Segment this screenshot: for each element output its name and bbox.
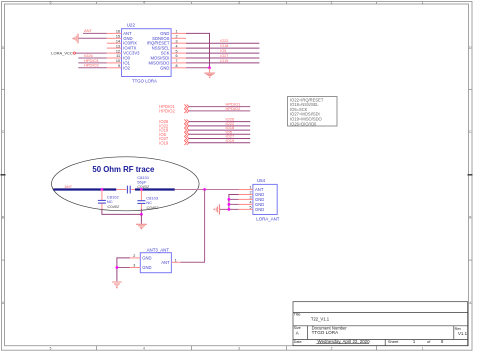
- svg-text:U22: U22: [127, 23, 136, 28]
- wire IO18: [189, 129, 250, 131]
- svg-text:ANT: ANT: [161, 260, 170, 265]
- svg-text:5: 5: [50, 1, 52, 5]
- svg-text:12: 12: [116, 49, 120, 53]
- svg-text:IO19: IO19: [220, 59, 228, 63]
- svg-text:3: 3: [238, 347, 240, 351]
- svg-text:50 Ohm RF trace: 50 Ohm RF trace: [92, 165, 155, 174]
- svg-text:IO19: IO19: [159, 140, 169, 145]
- capacitor C8102 NC (shunt): [98, 190, 120, 209]
- svg-text:8: 8: [176, 64, 178, 68]
- svg-text:Title: Title: [294, 312, 301, 316]
- svg-text:9: 9: [118, 64, 120, 68]
- svg-text:Sheet: Sheet: [388, 339, 399, 344]
- title block: [293, 302, 468, 346]
- note box: pin mapping table: [288, 97, 338, 127]
- svg-text:IO2: IO2: [123, 65, 130, 70]
- svg-text:T22_V1.1: T22_V1.1: [311, 317, 330, 322]
- svg-text:Wednesday, April 22, 2020: Wednesday, April 22, 2020: [318, 339, 371, 344]
- svg-text:14: 14: [116, 39, 120, 43]
- svg-text:V1.1: V1.1: [458, 331, 468, 336]
- wire HPDIO1: [189, 106, 250, 108]
- svg-text:7: 7: [176, 59, 178, 63]
- svg-text:4: 4: [176, 44, 178, 48]
- ground (below U22): [204, 68, 215, 78]
- junction (ANT3 gnd): [116, 266, 119, 269]
- svg-text:2: 2: [331, 347, 333, 351]
- svg-text:5: 5: [50, 347, 52, 351]
- svg-text:6: 6: [176, 54, 178, 58]
- svg-text:4: 4: [250, 200, 252, 204]
- svg-text:HPDIO2: HPDIO2: [226, 106, 242, 111]
- svg-text:B: B: [469, 216, 471, 220]
- svg-text:LORA_ANT: LORA_ANT: [256, 217, 279, 222]
- junction (U54 gnd bus pin4): [228, 203, 231, 206]
- wire IO22: [189, 125, 250, 127]
- junction (shunt cap ground): [140, 213, 143, 216]
- svg-text:5: 5: [250, 205, 252, 209]
- svg-text:A: A: [296, 330, 299, 335]
- IC U22 TTGO LORA: [107, 23, 186, 84]
- junction (antenna tee): [203, 188, 206, 191]
- wire U54 pin4 GND: [229, 203, 239, 205]
- wire U22 pin4 NSS/SEL: [186, 47, 259, 49]
- wire U22 pin3 IRQ/RESET: [186, 42, 259, 44]
- wire U22 pin16 ANT: [83, 32, 107, 34]
- svg-text:IO27: IO27: [220, 54, 228, 58]
- wire U22 pin8 GND: [186, 67, 210, 69]
- wire U22 pin11 IO0: [78, 57, 107, 59]
- svg-text:13: 13: [116, 44, 120, 48]
- wire U22 pin7 MISO/SDO: [186, 62, 259, 64]
- wire U54 pin5 GND to ground: [220, 208, 239, 210]
- wire IO27: [189, 138, 250, 140]
- svg-text:Date:: Date:: [294, 340, 303, 344]
- svg-text:4: 4: [143, 1, 145, 5]
- svg-text:2: 2: [331, 1, 333, 5]
- svg-text:C0402: C0402: [147, 205, 160, 210]
- svg-text:IO5: IO5: [220, 49, 226, 53]
- junction (trace / C8103): [140, 188, 143, 191]
- svg-text:IO18: IO18: [220, 44, 228, 48]
- wire RF trace to U54 pin1: [175, 189, 239, 191]
- wire antenna tee down to ANT3 pin1: [181, 190, 205, 263]
- junction (U54 gnd bus pin3): [228, 198, 231, 201]
- wire IO19: [189, 142, 250, 144]
- svg-text:3: 3: [176, 39, 178, 43]
- svg-text:GND: GND: [142, 265, 151, 270]
- svg-text:IO19: IO19: [226, 138, 235, 143]
- svg-text:C0402: C0402: [107, 204, 120, 209]
- svg-text:1: 1: [422, 347, 424, 351]
- svg-text:3: 3: [250, 195, 252, 199]
- wire U54 pin3 GND: [229, 198, 239, 200]
- connector ANT3_ANT: [130, 248, 181, 273]
- svg-text:IO22: IO22: [220, 39, 228, 43]
- wire junction to ground: [140, 214, 142, 223]
- wire C8102 bottom to C8103 bottom: [102, 209, 141, 215]
- wire U22 pin1 GND to ground bus: [186, 33, 210, 67]
- svg-text:TTGO LORA: TTGO LORA: [312, 330, 339, 335]
- svg-text:B: B: [2, 216, 4, 220]
- svg-text:ANT: ANT: [84, 28, 93, 33]
- svg-text:LORA_VCC: LORA_VCC: [51, 51, 73, 56]
- ground (rotated, left of U54): [213, 204, 219, 214]
- wire IO26: [189, 121, 250, 123]
- svg-text:GND: GND: [160, 65, 169, 70]
- ground (below C8103): [136, 224, 147, 229]
- svg-text:1: 1: [176, 30, 178, 34]
- svg-text:5: 5: [176, 49, 178, 53]
- svg-text:1: 1: [250, 186, 252, 190]
- svg-text:15: 15: [116, 35, 120, 39]
- wire U22 pin5 SCK: [186, 52, 259, 54]
- svg-text:ANT3_ANT: ANT3_ANT: [147, 248, 170, 253]
- svg-text:11: 11: [116, 54, 120, 58]
- svg-text:TTGO LORA: TTGO LORA: [132, 78, 157, 83]
- svg-text:2: 2: [176, 35, 178, 39]
- wire U22 pin10 IO1: [78, 62, 107, 64]
- svg-text:4: 4: [143, 347, 145, 351]
- svg-text:2: 2: [250, 191, 252, 195]
- svg-text:U54: U54: [257, 178, 266, 183]
- wire U22 pin15 GND: [78, 37, 107, 39]
- wire U54 pin2 GND: [229, 195, 239, 210]
- svg-text:1: 1: [175, 258, 177, 262]
- svg-text:GND: GND: [255, 207, 264, 212]
- svg-text:3: 3: [238, 1, 240, 5]
- svg-text:HPDIO2: HPDIO2: [84, 63, 100, 68]
- junction (GND bus): [208, 66, 211, 69]
- svg-text:IO26=DIO/IO0: IO26=DIO/IO0: [290, 121, 317, 126]
- svg-text:16: 16: [116, 30, 120, 34]
- svg-text:1: 1: [422, 1, 424, 5]
- wire RF trace right segment (thick): [135, 188, 175, 190]
- wire RF trace left segment (thick): [53, 188, 116, 190]
- svg-text:GND: GND: [142, 256, 151, 261]
- wire IO5: [189, 133, 250, 135]
- wire U22 pin9 IO2: [78, 67, 107, 69]
- wire HPDIO2: [189, 110, 250, 112]
- RF section ellipse annotation: [52, 157, 200, 211]
- ground (rotated, at U22 pin15): [72, 34, 78, 44]
- junction (trace / C8102): [101, 188, 104, 191]
- svg-text:C0402: C0402: [137, 184, 150, 189]
- svg-text:2: 2: [133, 254, 135, 258]
- capacitor C8101 56pF (series): [116, 175, 150, 194]
- IC U54 LORA_ANT: [239, 178, 280, 222]
- wire ANT3 pin3 GND: [117, 267, 130, 269]
- wire U22 pin12 VCC3V3: [76, 52, 107, 54]
- wire ANT3 pin2 GND: [117, 258, 130, 281]
- svg-text:3: 3: [133, 264, 135, 268]
- junction (U54 gnd bus pin5): [228, 208, 231, 211]
- wire U22 pin6 MOSI/SDI: [186, 57, 259, 59]
- capacitor C8103 NC (shunt): [137, 190, 159, 210]
- svg-text:10: 10: [116, 59, 120, 63]
- svg-text:HPDIO2: HPDIO2: [159, 108, 175, 113]
- ground (below ANT3): [112, 282, 122, 288]
